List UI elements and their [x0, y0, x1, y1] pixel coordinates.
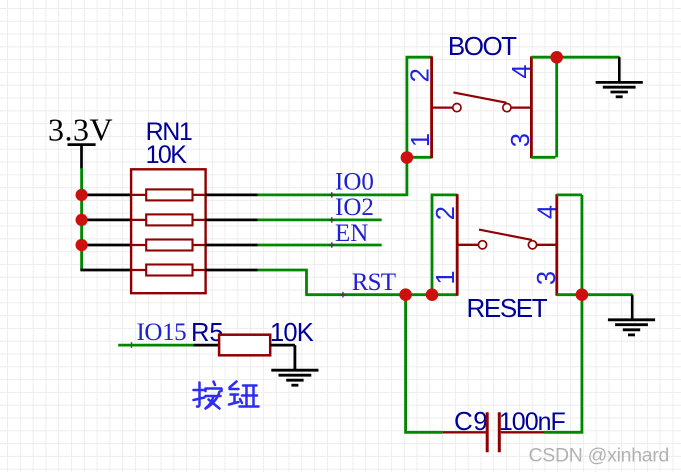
wire IO15 green: [118, 344, 193, 347]
net label EN: [329, 220, 368, 248]
push button BOOT contacts and lever: [432, 106, 453, 108]
svg-text:4: 4: [508, 64, 536, 78]
wire RESET left U: [432, 195, 457, 295]
push button BOOT left bar pins 1 2: [430, 56, 433, 158]
junction node RESET pin3: [576, 288, 589, 301]
svg-text:2: 2: [407, 68, 435, 82]
wire row3 left black: [80, 244, 131, 247]
junction node rail row3: [76, 239, 88, 251]
wire R5 right to ground: [270, 345, 295, 370]
push button RESET contacts and lever: [457, 244, 478, 246]
wire BOOT left U: [407, 57, 432, 157]
net label IO2: [329, 194, 374, 223]
push button RESET: [399, 194, 632, 323]
wire row2 left black: [80, 218, 131, 221]
wire row4 right black: [206, 269, 258, 272]
wire row1 right black: [206, 193, 258, 196]
wire row2 right black: [206, 218, 258, 221]
svg-text:IO2: IO2: [335, 194, 374, 221]
net label IO15: [129, 319, 187, 348]
net label IO0: [329, 168, 374, 197]
text label button (Chinese): [194, 382, 259, 409]
wire row3 green stub: [258, 244, 382, 247]
net label RST: [340, 269, 396, 298]
svg-text:10K: 10K: [270, 319, 314, 347]
wire RST down to C9: [404, 294, 443, 433]
push button BOOT right bar pins 3 4: [530, 56, 533, 158]
svg-text:CSDN @xinhard: CSDN @xinhard: [529, 444, 670, 466]
push button RESET right bar pins 3 4: [555, 194, 558, 296]
junction node BOOT pin4: [550, 51, 563, 64]
wire BOOT right to ground: [531, 57, 619, 157]
svg-text:EN: EN: [335, 220, 368, 247]
wire RESET right to ground: [557, 195, 633, 295]
push button RESET left bar pins 1 2: [456, 194, 459, 296]
svg-text:10K: 10K: [146, 141, 188, 169]
capacitor C9 100nF: [443, 406, 566, 452]
svg-text:2: 2: [432, 206, 460, 220]
wire row2 green stub: [258, 218, 382, 221]
resistor R5 10K: [191, 319, 314, 355]
wire row4 left black: [80, 269, 131, 272]
svg-text:3: 3: [507, 133, 535, 147]
svg-text:IO0: IO0: [335, 168, 374, 195]
wire C9 right to RESET pin3: [544, 294, 583, 434]
wire 3.3V rail vertical: [80, 168, 83, 270]
junction node RESET pin1: [426, 288, 439, 301]
resistor network RN1 10K: [131, 118, 206, 293]
svg-text:1: 1: [407, 133, 435, 147]
junction node rail row1: [76, 189, 88, 201]
junction node rail row2: [76, 214, 88, 226]
svg-text:4: 4: [534, 205, 562, 219]
svg-text:3: 3: [533, 271, 561, 285]
ground (BOOT): [596, 57, 643, 97]
junction node BOOT pin1: [401, 151, 414, 164]
wire row3 right black: [206, 244, 258, 247]
ground (R5): [271, 370, 318, 385]
wire row1 left black: [80, 193, 131, 196]
push button BOOT: [401, 31, 620, 164]
svg-text:RESET: RESET: [467, 293, 548, 323]
svg-text:IO15: IO15: [137, 319, 187, 346]
junction node RST wire: [399, 288, 412, 301]
svg-text:RST: RST: [352, 269, 396, 296]
ground (RESET): [608, 295, 655, 335]
svg-text:3.3V: 3.3V: [48, 112, 113, 148]
wire R5 left lead: [193, 344, 219, 347]
svg-text:BOOT: BOOT: [448, 31, 517, 61]
wire row4 green to RST row: [258, 269, 434, 295]
power symbol 3.3V: [48, 112, 113, 170]
svg-text:1: 1: [432, 270, 460, 284]
wire row1 green to BOOT pin1: [258, 158, 407, 197]
